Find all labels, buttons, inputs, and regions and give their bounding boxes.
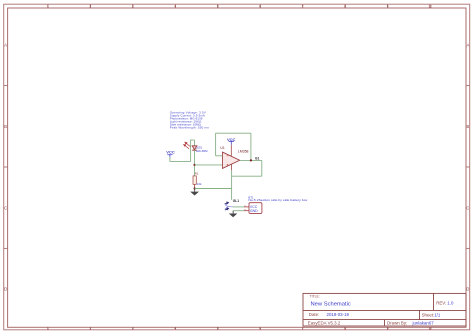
svg-text:R1: R1 <box>195 172 199 176</box>
svg-text:4: 4 <box>174 326 176 330</box>
frame column numbers bottom <box>47 326 432 330</box>
svg-text:4: 4 <box>174 5 176 9</box>
svg-text:B: B <box>4 124 7 129</box>
frame column ticks bottom <box>48 327 430 330</box>
svg-text:1: 1 <box>47 326 49 330</box>
svg-text:TITLE:: TITLE: <box>310 294 320 298</box>
wire up to LED <box>191 140 195 161</box>
svg-text:2018-03-19: 2018-03-19 <box>327 312 350 317</box>
svg-text:LED-3MM: LED-3MM <box>196 149 208 153</box>
svg-text:New Schematic: New Schematic <box>311 301 351 307</box>
wire jog left <box>232 175 262 177</box>
svg-text:GND: GND <box>250 209 258 213</box>
battery BT1 box <box>249 203 262 214</box>
VCC net flag op-amp <box>227 137 236 145</box>
svg-text:1: 1 <box>47 5 49 9</box>
ground under R1 <box>190 189 199 196</box>
frame row ticks left <box>4 86 8 249</box>
wire feedback left vertical <box>215 133 217 156</box>
wire VCC-left down <box>169 157 171 161</box>
node junction LED/R1 <box>193 164 195 166</box>
LED LED1 body <box>192 146 197 150</box>
wire switch to battery VCC <box>233 206 245 208</box>
svg-text:G1: G1 <box>255 157 259 161</box>
frame column numbers top <box>47 5 432 9</box>
wire LED cathode to R1 <box>194 150 196 176</box>
svg-text:Drawn By:: Drawn By: <box>387 321 407 326</box>
wire feedback right vertical <box>250 133 252 160</box>
wire junction to op-amp input <box>195 164 223 166</box>
frame row ticks right <box>466 86 470 249</box>
svg-text:1/1: 1/1 <box>434 312 441 317</box>
svg-text:5: 5 <box>217 5 219 9</box>
frame column ticks top <box>48 4 430 8</box>
svg-text:A: A <box>4 43 7 48</box>
svg-text:7: 7 <box>302 5 304 9</box>
wire LED top lead <box>194 140 196 146</box>
svg-text:6: 6 <box>259 5 261 9</box>
svg-text:A: A <box>467 43 470 48</box>
svg-text:Date:: Date: <box>309 312 320 317</box>
wire feedback input stub <box>216 155 223 157</box>
wire feedback top horizontal <box>216 132 251 134</box>
svg-text:10k: 10k <box>197 182 202 186</box>
note text photoresistor specs <box>170 111 210 130</box>
svg-text:2: 2 <box>90 326 92 330</box>
svg-text:10: 10 <box>428 5 432 9</box>
svg-text:LM358: LM358 <box>238 150 249 154</box>
svg-text:GL1: GL1 <box>233 199 239 203</box>
svg-text:Peak Wavelength: 550 nm: Peak Wavelength: 550 nm <box>170 125 210 129</box>
svg-text:7: 7 <box>302 326 304 330</box>
battery BT1 pin end marks <box>244 206 245 211</box>
svg-text:3: 3 <box>132 326 134 330</box>
svg-text:D: D <box>466 287 469 292</box>
svg-text:6: 6 <box>259 326 261 330</box>
svg-text:U1: U1 <box>220 146 224 150</box>
svg-text:5: 5 <box>217 326 219 330</box>
svg-text:9: 9 <box>387 326 389 330</box>
svg-text:1.0: 1.0 <box>447 301 454 306</box>
node junction R1 bottom <box>194 187 196 189</box>
svg-text:LED1: LED1 <box>196 145 203 149</box>
photoresistor GL1 symbol <box>225 202 233 210</box>
wire op-amp output <box>240 159 262 161</box>
svg-text:10: 10 <box>428 326 432 330</box>
wire output down <box>261 160 263 176</box>
svg-text:8: 8 <box>344 326 346 330</box>
wire ground to battery GND <box>233 210 244 212</box>
svg-text:EasyEDA V5.3.2: EasyEDA V5.3.2 <box>308 321 341 326</box>
op-amp U1 triangle <box>223 152 240 168</box>
wire R1 bottom to right <box>195 188 232 190</box>
svg-text:VCC: VCC <box>166 150 175 155</box>
svg-text:No.5 2Section side by side bat: No.5 2Section side by side battery box <box>248 198 308 202</box>
frame row letters right <box>466 43 469 292</box>
resistor R1 <box>193 176 196 189</box>
svg-text:9: 9 <box>387 5 389 9</box>
frame row letters left <box>4 43 7 292</box>
svg-text:2: 2 <box>90 5 92 9</box>
title block border <box>303 293 466 326</box>
svg-text:C: C <box>4 205 7 210</box>
svg-text:junlakan67: junlakan67 <box>412 321 435 326</box>
battery BT1 pin GND <box>245 210 250 212</box>
wire op-amp V- down to switch area <box>231 170 233 200</box>
svg-text:Sheet:: Sheet: <box>422 312 435 317</box>
LED light arrows <box>184 142 191 149</box>
svg-text:D: D <box>4 287 7 292</box>
svg-text:3: 3 <box>132 5 134 9</box>
node junction output <box>250 159 252 161</box>
svg-text:8: 8 <box>344 5 346 9</box>
battery BT1 pin VCC <box>245 206 250 208</box>
svg-text:REV:: REV: <box>436 301 446 306</box>
op-amp U1 V+ pin <box>230 145 232 157</box>
svg-text:C: C <box>466 205 469 210</box>
ground under battery <box>229 211 238 218</box>
VCC net flag left <box>166 150 175 158</box>
svg-text:B: B <box>467 124 470 129</box>
op-amp U1 V- pin <box>231 164 233 170</box>
op-amp U1 input polarity marks <box>227 156 229 166</box>
wire VCC-left horizontal <box>170 160 191 162</box>
